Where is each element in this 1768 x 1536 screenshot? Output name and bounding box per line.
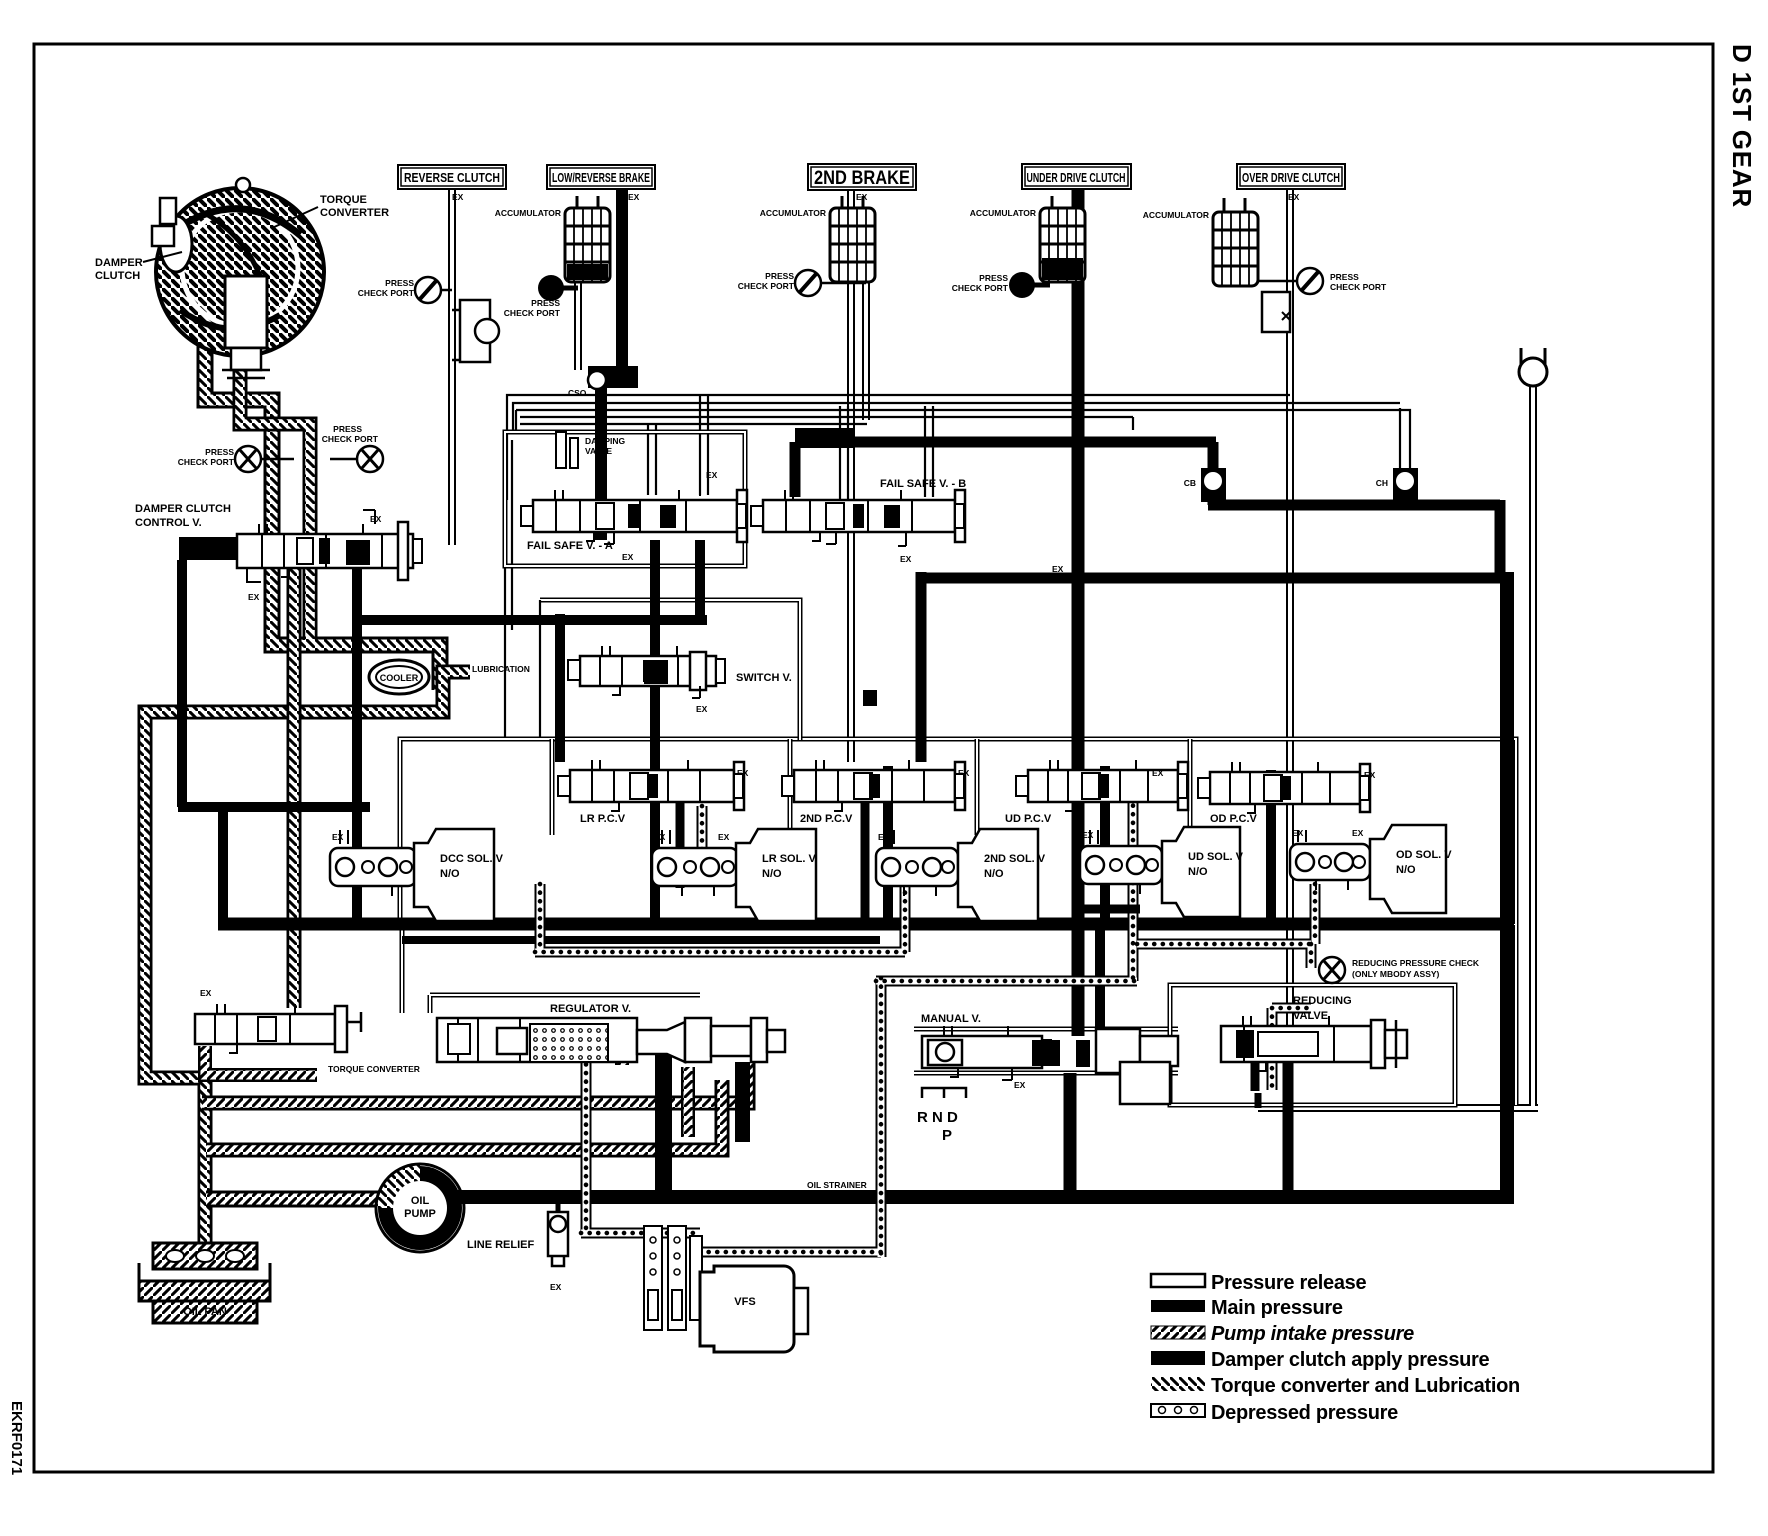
svg-text:EX: EX <box>628 192 640 202</box>
wire damper clutch control left leg <box>178 560 370 926</box>
torque converter control valve <box>195 988 420 1074</box>
wire short thick near UD sol <box>1078 905 1140 914</box>
svg-text:EX: EX <box>332 832 344 842</box>
wire LR accumulator leg <box>574 226 582 370</box>
svg-text:COOLER: COOLER <box>380 673 419 683</box>
label 2ND BRAKE <box>808 164 916 190</box>
oil filter <box>153 1243 257 1269</box>
wire main horizontal y442 <box>800 437 1216 448</box>
svg-text:2ND BRAKE: 2ND BRAKE <box>814 168 910 189</box>
node CSO joint <box>568 371 606 398</box>
svg-text:EX: EX <box>370 514 382 524</box>
node reducing valve cell <box>1170 985 1455 1105</box>
svg-text:VALVE: VALVE <box>1293 1010 1328 1022</box>
wire bus drop to fail safe A <box>648 395 708 495</box>
svg-text:(ONLY MBODY ASSY): (ONLY MBODY ASSY) <box>1352 969 1440 979</box>
node fail safe A cell <box>505 432 745 566</box>
svg-text:REVERSE CLUTCH: REVERSE CLUTCH <box>404 170 500 185</box>
node spool detail overlays <box>217 406 1380 1077</box>
svg-text:ACCUMULATOR: ACCUMULATOR <box>495 208 561 218</box>
svg-text:D 1ST GEAR: D 1ST GEAR <box>1727 44 1757 208</box>
torque converter body <box>156 188 324 356</box>
svg-text:OIL PAN: OIL PAN <box>183 1306 227 1318</box>
wire 2nd accumulator leg <box>862 226 870 420</box>
svg-text:EX: EX <box>1288 192 1300 202</box>
svg-text:EX: EX <box>706 470 718 480</box>
fail safe valve A <box>521 470 747 562</box>
legend pump intake <box>1151 1326 1205 1339</box>
node right boundary extension <box>1514 925 1519 1105</box>
oil pan <box>139 1263 270 1323</box>
svg-text:DAMPING: DAMPING <box>585 436 626 446</box>
svg-text:EX: EX <box>550 1282 562 1292</box>
UD solenoid <box>1080 827 1244 917</box>
legend depressed pressure <box>1151 1402 1398 1424</box>
reducing valve <box>1221 995 1407 1068</box>
node reverse clutch bypass loop <box>452 300 499 362</box>
line relief valve <box>467 1197 568 1292</box>
node solenoid band outer cell <box>400 739 1516 925</box>
svg-text:UD P.C.V: UD P.C.V <box>1005 813 1052 825</box>
press check port UD (filled) <box>952 272 1050 298</box>
svg-text:PRESS: PRESS <box>1330 272 1359 282</box>
svg-text:P: P <box>942 1127 952 1144</box>
press check port LR (filled) <box>504 275 578 318</box>
wire left thin drop <box>505 430 512 739</box>
OD solenoid <box>1290 825 1452 913</box>
svg-text:UD SOL. V: UD SOL. V <box>1188 851 1244 863</box>
2ND solenoid <box>876 829 1046 921</box>
node cell dividers <box>552 739 1190 835</box>
svg-text:CH: CH <box>1376 478 1388 488</box>
svg-text:CHECK PORT: CHECK PORT <box>358 288 415 298</box>
svg-text:EX: EX <box>878 832 890 842</box>
wire long lubrication line y1103 <box>202 1062 748 1103</box>
svg-text:REGULATOR V.: REGULATOR V. <box>550 1003 631 1015</box>
svg-text:LINE RELIEF: LINE RELIEF <box>467 1239 535 1251</box>
svg-text:CHECK PORT: CHECK PORT <box>952 283 1009 293</box>
wire reverse clutch line <box>448 189 456 545</box>
svg-text:Main pressure: Main pressure <box>1211 1297 1343 1319</box>
wire OD reducing drop <box>1283 1062 1294 1192</box>
legend pressure release <box>1151 1274 1205 1287</box>
svg-text:EX: EX <box>856 192 868 202</box>
svg-text:TORQUE CONVERTER: TORQUE CONVERTER <box>328 1064 420 1074</box>
wire over drive clutch line <box>1286 189 1294 1040</box>
wire DCC down + y620 <box>352 560 362 926</box>
svg-text:LR SOL. V: LR SOL. V <box>762 853 816 865</box>
svg-text:DAMPER CLUTCH: DAMPER CLUTCH <box>135 503 231 515</box>
node CH joint <box>1376 468 1418 502</box>
svg-text:Torque converter and Lubricati: Torque converter and Lubrication <box>1211 1375 1520 1397</box>
svg-text:VALVE: VALVE <box>585 446 612 456</box>
svg-text:CHECK PORT: CHECK PORT <box>322 434 379 444</box>
node manual valve cell top <box>914 1029 1178 1073</box>
svg-text:OD P.C.V: OD P.C.V <box>1210 813 1258 825</box>
svg-text:VFS: VFS <box>734 1296 755 1308</box>
reducing pressure check <box>1319 957 1480 983</box>
svg-text:MANUAL V.: MANUAL V. <box>921 1013 981 1025</box>
press check port 2ND <box>738 270 866 296</box>
press check port TC right <box>322 424 383 472</box>
accumulator 2ND <box>760 196 875 282</box>
svg-text:EX: EX <box>248 592 260 602</box>
svg-text:CLUTCH: CLUTCH <box>95 270 140 282</box>
svg-text:UNDER DRIVE CLUTCH: UNDER DRIVE CLUTCH <box>1027 170 1126 185</box>
svg-text:EX: EX <box>718 832 730 842</box>
svg-text:EX: EX <box>1052 564 1064 574</box>
torque converter drain pipe <box>205 335 440 690</box>
regulator valve <box>437 1003 785 1062</box>
wire TC inner return pipe <box>240 350 310 640</box>
VFS solenoid pack <box>644 1226 702 1330</box>
label UNDER DRIVE CLUTCH <box>1022 164 1131 189</box>
svg-text:EX: EX <box>1352 828 1364 838</box>
accumulator OD <box>1143 198 1258 286</box>
OD PCV <box>1198 764 1376 825</box>
damping valve <box>556 432 626 468</box>
switch valve <box>568 652 792 714</box>
svg-text:PUMP: PUMP <box>404 1208 436 1220</box>
label REVERSE CLUTCH <box>398 165 506 189</box>
svg-text:OD SOL. V: OD SOL. V <box>1396 849 1452 861</box>
wire pump suction pipe <box>206 1191 378 1208</box>
damper clutch control valve <box>135 503 413 602</box>
svg-text:R N D: R N D <box>917 1109 958 1126</box>
svg-text:EX: EX <box>1014 1080 1026 1090</box>
svg-text:EX: EX <box>654 832 666 842</box>
svg-text:LUBRICATION: LUBRICATION <box>472 664 530 674</box>
svg-text:REDUCING: REDUCING <box>1293 995 1352 1007</box>
svg-text:PRESS: PRESS <box>333 424 362 434</box>
svg-text:OVER DRIVE CLUTCH: OVER DRIVE CLUTCH <box>1242 170 1340 185</box>
svg-text:EX: EX <box>1082 830 1094 840</box>
wire pipe DCC to TC control valve <box>287 565 302 1008</box>
svg-text:EX: EX <box>1072 192 1084 202</box>
wire regulator black bars <box>655 1035 672 1195</box>
svg-text:EX: EX <box>696 704 708 714</box>
press check port TC left <box>178 446 294 472</box>
svg-text:Damper clutch apply pressure: Damper clutch apply pressure <box>1211 1349 1490 1371</box>
svg-text:EX: EX <box>622 552 634 562</box>
LR solenoid <box>652 829 816 921</box>
svg-text:OIL: OIL <box>411 1195 430 1207</box>
legend torque converter <box>1151 1377 1205 1391</box>
wire bus line 1 <box>507 395 1290 500</box>
VFS body <box>700 1266 808 1352</box>
svg-text:2ND P.C.V: 2ND P.C.V <box>800 813 853 825</box>
wire LR brake thick line <box>616 189 628 368</box>
svg-text:Pump intake pressure: Pump intake pressure <box>1211 1323 1414 1345</box>
accumulator UD <box>970 196 1085 282</box>
svg-text:ACCUMULATOR: ACCUMULATOR <box>760 208 826 218</box>
press check port OD <box>1258 268 1387 294</box>
wire y926 long horizontal <box>218 918 1502 931</box>
wire CB drop and y505 <box>1208 442 1219 470</box>
accumulator LR <box>495 196 610 282</box>
svg-text:EX: EX <box>452 192 464 202</box>
legend damper clutch apply <box>1151 1351 1205 1365</box>
svg-text:CONVERTER: CONVERTER <box>320 207 389 219</box>
wire y578 horizontal <box>921 573 1507 584</box>
wire bus line 3 <box>520 417 1133 430</box>
UD PCV <box>1005 762 1188 825</box>
svg-text:N/O: N/O <box>1396 864 1416 876</box>
wire reducing valve link <box>1255 1093 1262 1108</box>
wire 2nd brake line <box>847 190 855 762</box>
cooler <box>369 660 429 694</box>
svg-text:REDUCING PRESSURE CHECK: REDUCING PRESSURE CHECK <box>1352 958 1480 968</box>
svg-text:CHECK PORT: CHECK PORT <box>504 308 561 318</box>
damper clutch piston <box>160 216 192 272</box>
wire bus line 2b <box>516 410 1410 430</box>
svg-text:CB: CB <box>1184 478 1196 488</box>
press check port reverse clutch <box>358 277 452 303</box>
2ND PCV <box>782 762 970 825</box>
wire bus line 4 <box>520 423 867 425</box>
svg-text:EX: EX <box>900 554 912 564</box>
wire lubrication return long pipe <box>145 672 470 1248</box>
svg-text:TORQUE: TORQUE <box>320 194 367 206</box>
svg-text:FAIL SAFE V. - B: FAIL SAFE V. - B <box>880 478 966 490</box>
wire TC control valve outlet short <box>205 1046 317 1075</box>
svg-text:PRESS: PRESS <box>531 298 560 308</box>
svg-text:EKRF0171: EKRF0171 <box>8 1401 25 1475</box>
svg-text:CHECK PORT: CHECK PORT <box>738 281 795 291</box>
svg-text:PRESS: PRESS <box>979 273 1008 283</box>
svg-text:FAIL SAFE V. - A: FAIL SAFE V. - A <box>527 540 613 552</box>
svg-text:PRESS: PRESS <box>385 278 414 288</box>
svg-text:Depressed pressure: Depressed pressure <box>1211 1402 1398 1424</box>
svg-text:CHECK PORT: CHECK PORT <box>178 457 235 467</box>
svg-text:2ND SOL. V: 2ND SOL. V <box>984 853 1046 865</box>
svg-text:PRESS: PRESS <box>205 447 234 457</box>
wire x655 vertical through switch <box>650 540 660 926</box>
node OD bypass loop <box>1262 292 1290 332</box>
wire regulator hatch stubs <box>622 1025 688 1137</box>
node switch valve cell <box>540 600 800 740</box>
wire right main vertical + bottom <box>452 572 1514 1197</box>
node top right port <box>1519 348 1547 386</box>
oil pump <box>376 1164 464 1252</box>
EX labels row above PCVs <box>452 192 1300 202</box>
svg-text:Pressure release: Pressure release <box>1211 1272 1367 1294</box>
wire x1100 manual feed <box>1095 926 1105 1034</box>
wire right side return line <box>1258 382 1538 1108</box>
svg-text:N/O: N/O <box>1188 866 1208 878</box>
gear selector RNDP <box>917 1088 966 1144</box>
svg-text:CSO: CSO <box>568 388 587 398</box>
DCC solenoid <box>330 829 504 921</box>
svg-text:CONTROL V.: CONTROL V. <box>135 517 202 529</box>
label OVER DRIVE CLUTCH <box>1237 164 1345 189</box>
svg-text:PRESS: PRESS <box>765 271 794 281</box>
svg-text:ACCUMULATOR: ACCUMULATOR <box>1143 210 1209 220</box>
svg-text:OIL STRAINER: OIL STRAINER <box>807 1180 867 1190</box>
node CB joint <box>1184 468 1226 502</box>
svg-text:N/O: N/O <box>440 868 460 880</box>
wire PCV feeds <box>676 800 685 888</box>
legend main pressure <box>1151 1300 1205 1312</box>
svg-text:EX: EX <box>1152 768 1164 778</box>
wire UD clutch main vertical <box>1072 190 1085 1036</box>
manual valve <box>921 1013 1178 1104</box>
node 2nd brake joint square <box>863 690 877 706</box>
svg-text:DAMPER: DAMPER <box>95 257 143 269</box>
svg-text:DCC SOL. V: DCC SOL. V <box>440 853 504 865</box>
svg-text:LOW/REVERSE BRAKE: LOW/REVERSE BRAKE <box>552 170 650 185</box>
LR PCV <box>558 762 749 825</box>
svg-text:SWITCH V.: SWITCH V. <box>736 672 792 684</box>
node lower left cell <box>400 925 405 1013</box>
svg-text:EX: EX <box>1292 828 1304 838</box>
node regulator link lines <box>430 995 700 1013</box>
svg-text:CHECK PORT: CHECK PORT <box>1330 282 1387 292</box>
svg-text:ACCUMULATOR: ACCUMULATOR <box>970 208 1036 218</box>
svg-text:N/O: N/O <box>984 868 1004 880</box>
fail safe valve B <box>751 478 1064 574</box>
svg-text:LR P.C.V: LR P.C.V <box>580 813 626 825</box>
label LOW/REVERSE BRAKE <box>547 165 655 189</box>
turbine hub white block <box>225 276 267 348</box>
svg-text:N/O: N/O <box>762 868 782 880</box>
wire bus line 2 <box>513 403 1400 430</box>
wire bus CH drop <box>1400 408 1410 468</box>
wire second lubrication line y1150 <box>206 1080 722 1150</box>
svg-text:EX: EX <box>200 988 212 998</box>
